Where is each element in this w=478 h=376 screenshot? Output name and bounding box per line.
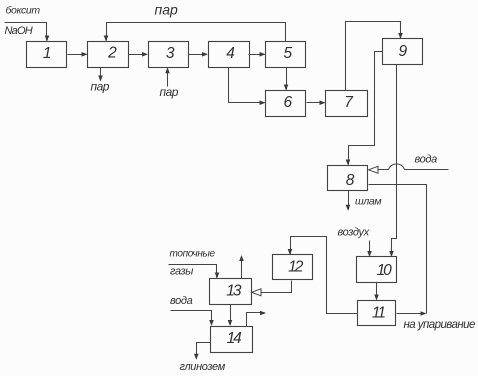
svg-text:9: 9 xyxy=(398,43,407,60)
svg-text:NaOH: NaOH xyxy=(5,25,33,37)
svg-text:топочные: топочные xyxy=(170,248,216,259)
svg-text:боксит: боксит xyxy=(6,5,41,17)
svg-text:вода: вода xyxy=(170,295,193,307)
svg-text:воздух: воздух xyxy=(338,227,370,239)
svg-text:газы: газы xyxy=(170,266,193,278)
svg-text:глинозем: глинозем xyxy=(180,361,226,373)
svg-text:вода: вода xyxy=(415,153,438,165)
svg-text:10: 10 xyxy=(377,262,393,279)
svg-text:7: 7 xyxy=(344,94,354,111)
svg-text:пар: пар xyxy=(91,80,110,94)
svg-text:1: 1 xyxy=(43,45,52,62)
svg-text:4: 4 xyxy=(226,45,235,62)
svg-text:пар: пар xyxy=(160,85,179,99)
svg-text:3: 3 xyxy=(166,45,175,62)
svg-text:8: 8 xyxy=(346,172,355,189)
svg-text:14: 14 xyxy=(227,330,243,347)
svg-text:на упаривание: на упаривание xyxy=(404,319,475,331)
svg-text:11: 11 xyxy=(372,305,385,322)
svg-text:6: 6 xyxy=(283,94,292,111)
svg-text:12: 12 xyxy=(288,258,304,275)
svg-text:2: 2 xyxy=(107,44,117,61)
svg-text:шлам: шлам xyxy=(355,196,381,208)
svg-text:5: 5 xyxy=(283,45,292,62)
svg-text:13: 13 xyxy=(226,283,242,300)
svg-text:пар: пар xyxy=(155,1,178,17)
